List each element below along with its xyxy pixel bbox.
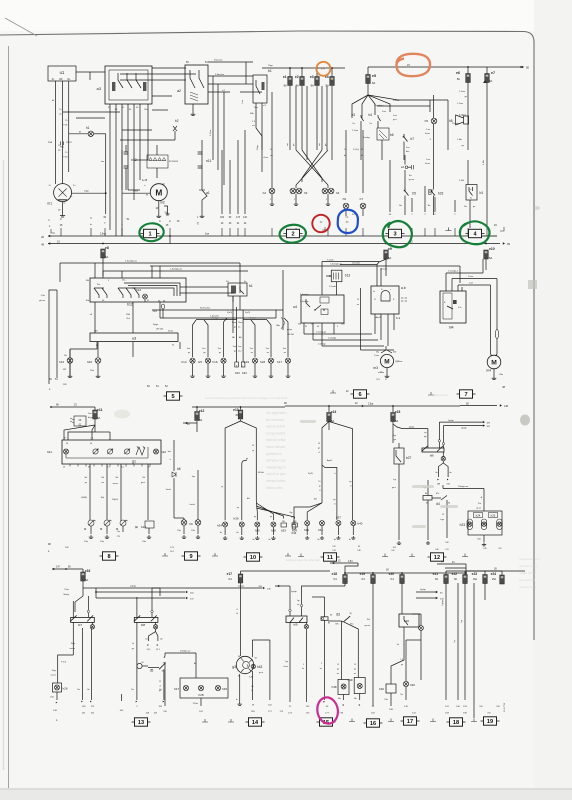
- svg-text:ge: ge: [318, 448, 320, 450]
- svg-text:h23: h23: [460, 523, 466, 527]
- svg-text:(1,5swli): (1,5swli): [352, 262, 360, 264]
- svg-text:h49: h49: [348, 678, 353, 682]
- svg-text:15: 15: [442, 514, 444, 516]
- wiring top of section2: [102, 258, 104, 276]
- zigzag in g1: [136, 447, 145, 455]
- svg-text:1gr: 1gr: [285, 661, 288, 663]
- svg-text:u1: u1: [60, 70, 65, 75]
- relay b1 section2: [228, 283, 247, 296]
- rail 30 line with connector boxes 1-4: [48, 235, 143, 237]
- svg-text:g3: g3: [232, 665, 236, 669]
- gauges in g1: [93, 449, 98, 454]
- svg-text:2,5rt: 2,5rt: [348, 560, 353, 563]
- b18 arrows right: [152, 587, 262, 589]
- svg-text:30: 30: [448, 503, 450, 505]
- svg-text:red gnuredrof: red gnuredrof: [266, 431, 285, 435]
- svg-text:ge-sw: ge-sw: [409, 179, 415, 181]
- svg-text:15br: 15br: [191, 529, 195, 532]
- svg-text:1u: 1u: [373, 291, 375, 293]
- svg-text:hws/rt: hws/rt: [190, 503, 196, 506]
- svg-text:15br: 15br: [477, 538, 481, 541]
- svg-text:1gr: 1gr: [297, 599, 300, 602]
- svg-text:sw: sw: [270, 155, 273, 157]
- svg-text:8A: 8A: [199, 418, 202, 422]
- svg-text:gn: gn: [203, 352, 205, 354]
- wires a2 to right: [208, 75, 253, 77]
- connector box 18: [447, 718, 466, 726]
- svg-text:b6: b6: [390, 133, 394, 137]
- svg-text:b1: b1: [249, 284, 253, 288]
- svg-text:e15: e15: [395, 410, 401, 414]
- svg-text:sw-ws: sw-ws: [69, 648, 75, 650]
- switch b7: [404, 134, 408, 142]
- svg-text:ge: ge: [337, 669, 339, 671]
- svg-text:gn-rt: gn-rt: [259, 671, 264, 674]
- svg-text:15br: 15br: [384, 699, 388, 701]
- svg-text:b34: b34: [242, 371, 247, 375]
- svg-text:ws: ws: [337, 673, 339, 675]
- svg-text:13,5br: 13,5br: [193, 702, 199, 705]
- ghost band row2: [205, 396, 288, 400]
- svg-text:b13: b13: [345, 274, 351, 278]
- svg-text:1br: 1br: [159, 689, 162, 691]
- svg-text:1br: 1br: [117, 531, 120, 533]
- svg-text:netsnu rebu: netsnu rebu: [266, 486, 283, 490]
- fan to b34 and h39: [294, 503, 322, 525]
- svg-text:e18: e18: [332, 572, 338, 576]
- svg-text:15br: 15br: [276, 324, 281, 327]
- svg-text:1sw: 1sw: [382, 111, 386, 113]
- svg-text:M: M: [384, 358, 389, 365]
- svg-text:h40: h40: [358, 522, 363, 526]
- svg-text:e23: e23: [472, 572, 478, 576]
- svg-text:h29: h29: [222, 687, 227, 691]
- svg-text:15br: 15br: [100, 540, 104, 543]
- svg-text:e9: e9: [388, 247, 392, 251]
- green pen circle around box 3: [383, 221, 412, 247]
- svg-text:15: 15: [318, 481, 320, 483]
- svg-text:8 A: 8 A: [229, 578, 233, 581]
- capacitor n11: [201, 140, 203, 186]
- rail 15 lower: [48, 243, 500, 245]
- svg-text:2: 2: [291, 232, 294, 238]
- svg-text:r1: r1: [334, 503, 336, 506]
- svg-text:r1: r1: [236, 608, 238, 611]
- wires below g1: [89, 464, 91, 520]
- svg-text:1br: 1br: [77, 688, 80, 691]
- svg-text:10 17756: 10 17756: [504, 702, 506, 712]
- e16 distribution: [75, 596, 83, 612]
- svg-text:tim nenniwer: tim nenniwer: [266, 418, 285, 422]
- svg-text:bl7: bl7: [78, 623, 82, 627]
- svg-text:gr-sw: gr-sw: [476, 507, 481, 510]
- wires from e9 down: [379, 259, 385, 263]
- svg-text:5: 5: [337, 326, 338, 328]
- svg-text:31: 31: [470, 198, 472, 200]
- svg-text:bl9: bl9: [293, 623, 297, 627]
- svg-text:15br: 15br: [499, 374, 503, 376]
- svg-text:8A: 8A: [236, 414, 239, 417]
- svg-text:netsok nehoh: netsok nehoh: [266, 425, 285, 429]
- svg-text:1gr/ge: 1gr/ge: [461, 427, 468, 429]
- svg-text:8A: 8A: [105, 255, 108, 259]
- svg-text:4rt: 4rt: [452, 561, 455, 564]
- svg-text:10: 10: [250, 555, 256, 561]
- svg-text:netiekhcilgom: netiekhcilgom: [266, 465, 286, 469]
- svg-text:1br: 1br: [464, 205, 467, 208]
- svg-text:15sw: 15sw: [232, 322, 237, 324]
- svg-text:1(b): 1(b): [100, 497, 104, 499]
- svg-text:15: 15: [357, 299, 359, 301]
- svg-text:14: 14: [252, 720, 259, 726]
- svg-text:15rt/gn-sw: 15rt/gn-sw: [458, 485, 469, 488]
- svg-text:br: br: [90, 223, 92, 226]
- svg-text:bl-ws: bl-ws: [425, 133, 430, 135]
- svg-text:H5: H5: [198, 360, 202, 364]
- svg-text:56: 56: [90, 443, 92, 445]
- svg-text:1gr/ge: 1gr/ge: [291, 591, 298, 593]
- svg-text:ws: ws: [320, 668, 322, 670]
- svg-text:h48: h48: [332, 685, 337, 689]
- svg-text:58: 58: [66, 443, 68, 445]
- svg-text:netlah hcrud: netlah hcrud: [519, 571, 536, 575]
- e18 branch to left edge: [344, 583, 346, 586]
- svg-text:8A: 8A: [457, 77, 460, 81]
- connector box 14: [246, 718, 265, 726]
- F 1/3 mark: [58, 655, 74, 680]
- svg-text:b2: b2: [175, 119, 179, 123]
- e5 fanout: [352, 95, 368, 118]
- g3 jumper to 102: [251, 640, 253, 657]
- svg-text:d3: d3: [336, 613, 340, 617]
- svg-text:8A: 8A: [85, 578, 88, 582]
- svg-text:2,5sw: 2,5sw: [100, 234, 106, 236]
- svg-text:15bl: 15bl: [126, 314, 131, 316]
- diode block: [147, 155, 168, 168]
- svg-text:e8: e8: [105, 246, 109, 250]
- svg-text:D-: D-: [49, 185, 52, 187]
- svg-text:h2: h2: [263, 191, 267, 195]
- svg-text:h26: h26: [63, 687, 68, 691]
- lamps h35 h38: [255, 522, 260, 527]
- svg-text:TF1/1: TF1/1: [66, 142, 72, 144]
- wires below u3 to lamps: [69, 349, 71, 357]
- svg-text:F (1s): F (1s): [353, 149, 359, 151]
- option box 06 01: [74, 416, 86, 426]
- lamp h26 boxed: [53, 683, 62, 692]
- svg-text:e24: e24: [491, 572, 497, 576]
- svg-text:1sw/ws: 1sw/ws: [250, 317, 257, 319]
- connector box 8: [100, 552, 119, 560]
- svg-text:8A: 8A: [97, 416, 100, 420]
- svg-text:1,5swlrt: 1,5swlrt: [329, 285, 336, 288]
- svg-text:1gr/ge: 1gr/ge: [238, 585, 245, 588]
- svg-text:h4: h4: [336, 191, 340, 195]
- svg-text:e7: e7: [491, 71, 495, 75]
- svg-text:8A: 8A: [326, 84, 329, 88]
- scan top-left diagonal fold mark: [5, 18, 37, 36]
- vertical 15sw wire: [360, 288, 362, 350]
- svg-text:30c: 30c: [97, 284, 100, 286]
- wires below g3: [239, 674, 241, 702]
- svg-text:b15: b15: [141, 525, 146, 529]
- svg-text:2,5gr: 2,5gr: [368, 403, 373, 406]
- ghost band row3: [286, 558, 320, 562]
- svg-text:50: 50: [526, 66, 530, 70]
- svg-text:15br: 15br: [380, 372, 384, 374]
- svg-text:bt/s: bt/s: [406, 150, 409, 153]
- ground symbols on rail row: [322, 227, 328, 230]
- svg-text:e2: e2: [295, 75, 299, 79]
- svg-text:F1A: F1A: [48, 141, 53, 144]
- connector box 5: [164, 392, 183, 400]
- wires from b1 to left and down: [180, 286, 228, 288]
- svg-text:8A: 8A: [454, 578, 457, 581]
- svg-text:1ws/rt: 1ws/rt: [166, 488, 172, 491]
- interior light wire: [282, 310, 284, 330]
- svg-text:gnulletsreh: gnulletsreh: [266, 452, 282, 456]
- svg-text:b5: b5: [412, 192, 416, 196]
- svg-text:h43: h43: [257, 665, 263, 669]
- arrows right 1grge: [439, 421, 482, 423]
- b1 lower-left links: [447, 100, 449, 150]
- svg-text:15(b/5): 15(b/5): [112, 499, 119, 501]
- lamp h22: [154, 449, 159, 454]
- connector box 3: [386, 229, 405, 237]
- lamp h41: [320, 521, 325, 526]
- svg-text:§4: §4: [317, 326, 319, 328]
- svg-text:9: 9: [189, 554, 192, 560]
- svg-text:h36: h36: [233, 517, 238, 521]
- labels right arrows: [416, 591, 436, 593]
- svg-text:15ws/sw: 15ws/sw: [214, 60, 223, 62]
- svg-text:15: 15: [159, 681, 161, 683]
- relay d5: [137, 663, 142, 668]
- connector box 4: [466, 229, 485, 237]
- svg-text:h6: h6: [343, 197, 347, 201]
- svg-text:e12: e12: [199, 409, 205, 413]
- svg-text:8A: 8A: [388, 256, 391, 260]
- gray smudges: [520, 415, 530, 426]
- svg-text:e16: e16: [85, 569, 91, 573]
- connector box 19: [481, 717, 500, 725]
- svg-text:h17: h17: [277, 360, 282, 364]
- svg-text:15r: 15r: [251, 685, 254, 688]
- rail to e11: [50, 406, 52, 408]
- svg-text:a2: a2: [177, 89, 181, 93]
- svg-text:Agr/r1: Agr/r1: [327, 459, 333, 462]
- svg-text:1,5swlg-gn: 1,5swlg-gn: [316, 332, 327, 334]
- svg-text:15sw: 15sw: [64, 589, 69, 591]
- ground marks row2: [330, 390, 336, 393]
- svg-text:h34: h34: [217, 524, 222, 528]
- svg-text:7,5: 7,5: [107, 467, 110, 469]
- svg-text:1,5sw: 1,5sw: [468, 276, 474, 278]
- svg-text:b12: b12: [127, 303, 133, 307]
- svg-text:30: 30: [162, 671, 164, 673]
- svg-text:1sw/gn: 1sw/gn: [363, 137, 371, 139]
- svg-text:8A: 8A: [489, 79, 492, 83]
- connector box 11: [321, 553, 340, 561]
- feed arrows under row3 boxes: [330, 562, 358, 564]
- svg-text:1gr/ge: 1gr/ge: [420, 589, 427, 591]
- ground marks row3 right: [298, 554, 304, 557]
- svg-text:1br: 1br: [400, 694, 403, 696]
- connector box 16: [364, 719, 383, 727]
- switch b5 bottom: [405, 188, 409, 196]
- svg-text:15br: 15br: [50, 696, 54, 699]
- svg-text:b3: b3: [351, 113, 355, 117]
- svg-text:b27: b27: [406, 456, 412, 460]
- svg-text:h24: h24: [476, 514, 481, 518]
- svg-text:7: 7: [464, 392, 467, 398]
- svg-text:gn: gn: [234, 351, 236, 353]
- svg-text:h13: h13: [59, 360, 64, 364]
- lamp h48 boxed: [341, 621, 343, 680]
- svg-text:|E|: |E|: [135, 525, 138, 529]
- bottom mid verticals: [164, 662, 166, 706]
- svg-text:53M: 53M: [341, 324, 345, 326]
- svg-text:15: 15: [318, 443, 320, 445]
- g1 instrument box: [62, 440, 161, 464]
- svg-text:4+25: 4+25: [142, 180, 148, 182]
- svg-text:13: 13: [63, 467, 65, 469]
- svg-text:1sw/gn: 1sw/gn: [212, 317, 218, 319]
- svg-text:e3: e3: [310, 75, 314, 79]
- svg-text:1: 1: [321, 663, 322, 665]
- e14 fanout: [322, 422, 329, 462]
- svg-text:netlahret nescr: netlahret nescr: [430, 393, 449, 397]
- svg-text:8A: 8A: [435, 578, 438, 581]
- svg-text:e5: e5: [372, 74, 376, 78]
- svg-text:D-: D-: [64, 203, 67, 205]
- switch b27: [394, 448, 404, 464]
- svg-text:e14: e14: [331, 410, 337, 414]
- svg-text:15swlgn-t: 15swlgn-t: [374, 104, 384, 107]
- extra right column wires bottom: [457, 583, 459, 700]
- svg-text:s2: s2: [401, 165, 405, 169]
- svg-text:86: 86: [425, 493, 427, 495]
- svg-text:19: 19: [487, 719, 493, 725]
- svg-text:15rt/gn-sw: 15rt/gn-sw: [180, 650, 191, 653]
- svg-text:15br: 15br: [90, 370, 94, 372]
- connector box 6: [351, 390, 370, 398]
- wire d5 to h27 box: [165, 652, 196, 654]
- svg-text:f3: f3: [100, 527, 103, 531]
- svg-text:ge: ge: [401, 664, 403, 666]
- svg-text:b-1: b-1: [396, 316, 401, 320]
- svg-text:15rt: 15rt: [478, 502, 482, 505]
- ground marks row3: [162, 553, 168, 556]
- svg-text:b4: b4: [368, 113, 372, 117]
- svg-text:gn: gn: [234, 327, 236, 329]
- svg-text:1bo/gr: 1bo/gr: [63, 594, 69, 596]
- svg-text:5a: 5a: [470, 189, 472, 191]
- bottom scan shadow: [0, 788, 572, 800]
- orange pen small circle: [316, 62, 330, 76]
- svg-text:ws: ws: [251, 352, 253, 354]
- svg-text:1sw: 1sw: [393, 115, 397, 117]
- svg-text:e1: e1: [283, 75, 287, 79]
- svg-text:gn: gn: [219, 352, 221, 354]
- svg-text:1,5swlgr: 1,5swlgr: [318, 343, 326, 346]
- svg-text:h5: h5: [425, 119, 429, 123]
- svg-text:bl8: bl8: [141, 623, 145, 627]
- svg-text:8A: 8A: [296, 84, 299, 88]
- svg-text:h25: h25: [491, 514, 496, 518]
- connector box 10: [244, 553, 263, 561]
- svg-text:1sw: 1sw: [426, 159, 430, 161]
- svg-text:h9: h9: [189, 522, 193, 526]
- svg-text:15ge: 15ge: [268, 65, 274, 67]
- svg-text:8,5: 8,5: [121, 467, 124, 469]
- svg-text:bl6: bl6: [430, 454, 434, 458]
- svg-text:36: 36: [330, 615, 332, 617]
- svg-text:15swlge: 15swlge: [452, 123, 461, 125]
- svg-text:15: 15: [354, 664, 356, 666]
- svg-text:t5br: t5br: [338, 697, 341, 700]
- svg-text:15sw: 15sw: [238, 322, 243, 324]
- svg-text:8A: 8A: [284, 84, 287, 88]
- b16 feed from e15: [402, 428, 428, 430]
- relay d4: [423, 496, 432, 501]
- wire m1 to right 10ge: [72, 192, 106, 194]
- svg-text:r1-ws: r1-ws: [263, 156, 269, 159]
- svg-text:M: M: [155, 187, 162, 197]
- bleed-through ghost text right side: [266, 411, 287, 490]
- svg-text:AO: AO: [314, 498, 317, 501]
- svg-text:hcrud netseid: hcrud netseid: [266, 445, 285, 449]
- connector box 15: [317, 718, 336, 726]
- svg-text:e17: e17: [227, 572, 233, 576]
- svg-text:e13: e13: [233, 408, 239, 412]
- svg-text:1sw: 1sw: [406, 147, 410, 149]
- svg-text:5: 5: [171, 394, 174, 400]
- left branch down to AO fan: [321, 465, 323, 503]
- plug b23: [429, 190, 432, 195]
- svg-text:gn: gn: [85, 482, 87, 484]
- svg-text:m1: m1: [47, 202, 52, 206]
- svg-text:1,5br: 1,5br: [457, 138, 462, 141]
- svg-text:br: br: [344, 154, 346, 157]
- flasher unit b12: [90, 278, 186, 302]
- e13 fan: [225, 421, 240, 520]
- switch b32: [386, 684, 396, 693]
- svg-text:53b: 53b: [393, 352, 396, 354]
- svg-text:1,5swlgn: 1,5swlgn: [300, 301, 309, 303]
- svg-text:gn-rt: gn-rt: [392, 486, 397, 489]
- connector box 2: [284, 229, 303, 237]
- svg-text:gn-sw: gn-sw: [365, 625, 371, 627]
- svg-text:tge: tge: [424, 435, 427, 438]
- svg-text:8A: 8A: [311, 84, 314, 88]
- heater blower b14: [440, 291, 466, 323]
- svg-text:1br: 1br: [409, 175, 412, 177]
- ghost blobs mid right: [300, 420, 458, 528]
- svg-text:t1: t1: [251, 689, 253, 692]
- svg-text:1sw: 1sw: [242, 99, 244, 103]
- connector box 17: [401, 717, 420, 725]
- red pen circle: [312, 215, 329, 232]
- svg-text:b34: b34: [292, 531, 297, 535]
- svg-text:1,5sw: 1,5sw: [457, 103, 463, 105]
- svg-text:148: 148: [504, 405, 509, 408]
- svg-text:F1/2/3/4/5: F1/2/3/4/5: [169, 161, 179, 163]
- svg-text:Sy/ge: Sy/ge: [153, 324, 159, 326]
- svg-text:gn: gn: [132, 648, 134, 650]
- svg-text:87b: 87b: [335, 624, 338, 626]
- svg-text:hcs egtdnalrev: hcs egtdnalrev: [266, 411, 287, 415]
